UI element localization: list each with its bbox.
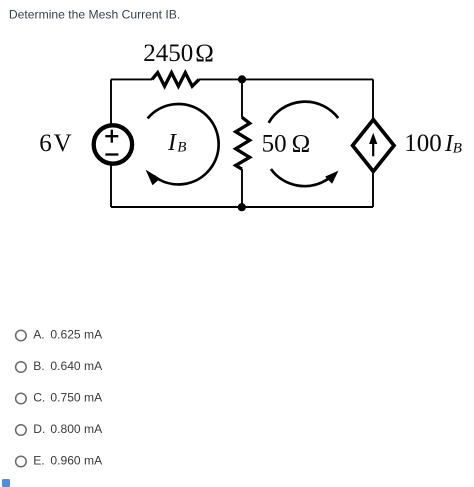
svg-text:0.800 mA: 0.800 mA: [50, 422, 103, 436]
wire top (left segment): [111, 78, 152, 80]
mesh arrow 2 bottom arc (counterclockwise): [271, 169, 328, 186]
svg-text:Ω: Ω: [195, 40, 214, 67]
svg-text:0.960 mA: 0.960 mA: [50, 453, 103, 467]
blue marker bottom-left: [2, 479, 10, 487]
wire top (right segment): [199, 78, 373, 80]
svg-text:I: I: [167, 130, 177, 156]
option A radio: [16, 330, 27, 341]
mesh arrow 2 top arc: [269, 102, 339, 123]
wire right lower: [372, 171, 374, 208]
wire right upper: [372, 79, 374, 121]
svg-text:A.: A.: [33, 327, 44, 341]
mesh arrow 2 arrowhead: [325, 171, 338, 184]
svg-text:2450: 2450: [143, 40, 193, 67]
node dot bottom middle: [238, 203, 246, 211]
dependent current source diamond: [353, 120, 394, 172]
svg-text:D.: D.: [33, 422, 45, 436]
svg-text:Ω: Ω: [292, 130, 311, 157]
voltage source minus sign: [105, 153, 118, 155]
mesh arrow IB arrowhead: [146, 170, 161, 186]
option C radio: [16, 393, 27, 404]
voltage source V1 circle: [94, 125, 132, 163]
svg-text:50: 50: [262, 130, 287, 157]
resistor R2 50ohm zigzag: [236, 117, 250, 169]
option D radio: [16, 425, 27, 436]
svg-text:6: 6: [39, 130, 52, 157]
svg-text:0.625 mA: 0.625 mA: [50, 327, 103, 341]
mesh arrow IB loop (clockwise): [148, 104, 219, 184]
svg-text:B: B: [177, 140, 186, 156]
wire left upper: [110, 79, 112, 125]
svg-text:0.750 mA: 0.750 mA: [50, 390, 103, 404]
current source arrow shaft: [372, 143, 374, 157]
node dot top middle: [238, 75, 246, 83]
wire middle upper: [241, 79, 243, 117]
svg-text:V: V: [54, 130, 72, 157]
resistor R1 2450ohm zigzag: [152, 73, 199, 87]
svg-text:C.: C.: [33, 390, 45, 404]
current source arrowhead: [369, 133, 377, 144]
wire middle lower: [241, 169, 243, 207]
svg-text:E.: E.: [33, 453, 44, 467]
voltage source plus sign: [105, 130, 118, 143]
option B radio: [16, 362, 27, 373]
answer options: [16, 327, 103, 467]
svg-text:100: 100: [404, 130, 442, 157]
wire left lower: [110, 164, 112, 208]
svg-text:Determine the Mesh Current IB.: Determine the Mesh Current IB.: [9, 8, 180, 22]
svg-text:B: B: [453, 140, 462, 156]
wire bottom: [111, 206, 373, 208]
option E radio: [16, 456, 27, 467]
svg-text:0.640 mA: 0.640 mA: [50, 359, 103, 373]
svg-text:B.: B.: [33, 359, 44, 373]
